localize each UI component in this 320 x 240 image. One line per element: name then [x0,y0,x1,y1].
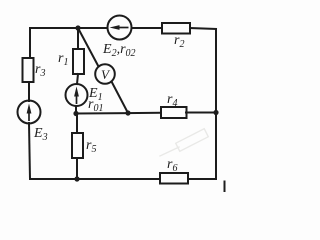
source E3 circle [18,101,41,124]
node middle rail meets right rail [213,110,218,115]
wire left rail upper [29,28,31,58]
svg-text:E3: E3 [33,126,48,143]
arrow inside E3 pointing up [27,104,32,122]
wire bottom rail [30,178,216,180]
svg-text:r1: r1 [58,51,68,68]
wire between r5 and bottom rail [76,158,78,179]
wire right rail [215,29,217,179]
node top junction [75,25,80,30]
voltmeter V circle [95,64,115,84]
wire between node and r5 [76,114,78,133]
resistor r6 [160,173,188,184]
wire diagonal voltmeter upper [78,28,99,67]
resistor r5 [72,133,83,158]
tick mark bottom right [224,181,226,193]
wire top rail right segment [190,28,216,29]
resistor r3 [23,58,34,82]
svg-text:r2: r2 [174,33,184,50]
source E2 circle [108,16,132,40]
wire left rail lower [29,123,30,179]
wire top rail mid segment [132,27,163,29]
svg-text:r5: r5 [86,138,96,155]
node r5 meets bottom rail [74,176,79,181]
resistor r4 [161,107,187,118]
source E1 circle [66,84,88,106]
ghost bleed-through resistor (faint) [160,129,208,156]
node diagonal meets middle rail [125,110,130,115]
arrow inside E2 pointing left [110,25,129,30]
wire middle rail left segment [76,112,161,115]
svg-text:E2,r02: E2,r02 [102,42,136,59]
resistor r2 [162,23,190,34]
wire middle branch upper [77,28,79,49]
wire between r1 and E1 [77,74,78,84]
svg-text:V: V [101,67,111,82]
wire top rail left segment [30,27,108,29]
node below E1 [73,111,78,116]
svg-text:r4: r4 [167,92,177,109]
resistor r1 [73,49,84,74]
wire middle rail right segment [186,112,216,114]
wire diagonal voltmeter lower [112,82,129,114]
arrow inside E1 pointing up [74,87,79,105]
wire between E1 and node [75,106,77,114]
svg-text:r6: r6 [167,157,177,174]
svg-text:r3: r3 [35,62,45,79]
wire left rail between r3 and E3 [28,82,30,101]
